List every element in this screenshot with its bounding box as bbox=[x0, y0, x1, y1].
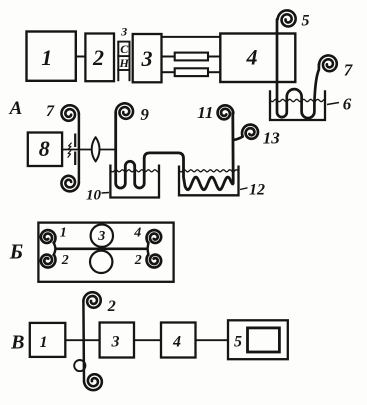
svg-text:В: В bbox=[10, 331, 24, 353]
svg-text:3: 3 bbox=[111, 334, 120, 351]
svg-text:5: 5 bbox=[234, 334, 242, 351]
svg-text:1: 1 bbox=[60, 225, 67, 240]
svg-text:4: 4 bbox=[172, 334, 181, 351]
svg-text:1: 1 bbox=[41, 45, 52, 70]
svg-text:2: 2 bbox=[107, 298, 116, 315]
svg-text:2: 2 bbox=[92, 45, 104, 70]
svg-text:3: 3 bbox=[97, 229, 105, 244]
svg-text:С: С bbox=[120, 42, 129, 56]
svg-text:З: З bbox=[120, 24, 127, 38]
svg-text:3: 3 bbox=[141, 46, 153, 71]
svg-text:8: 8 bbox=[39, 136, 50, 161]
svg-text:10: 10 bbox=[86, 188, 102, 204]
svg-text:11: 11 bbox=[197, 103, 213, 122]
svg-text:2: 2 bbox=[134, 253, 142, 268]
svg-text:1: 1 bbox=[40, 334, 48, 351]
svg-text:4: 4 bbox=[246, 45, 258, 70]
svg-text:4: 4 bbox=[133, 225, 141, 240]
svg-text:Б: Б bbox=[9, 240, 23, 264]
svg-text:9: 9 bbox=[140, 105, 149, 124]
svg-text:2: 2 bbox=[61, 253, 69, 268]
svg-text:13: 13 bbox=[263, 128, 281, 147]
svg-text:А: А bbox=[9, 98, 23, 119]
svg-text:5: 5 bbox=[302, 13, 310, 30]
svg-text:7: 7 bbox=[46, 103, 55, 120]
svg-text:6: 6 bbox=[343, 95, 352, 114]
svg-text:12: 12 bbox=[249, 181, 265, 198]
svg-text:Н: Н bbox=[119, 56, 130, 70]
